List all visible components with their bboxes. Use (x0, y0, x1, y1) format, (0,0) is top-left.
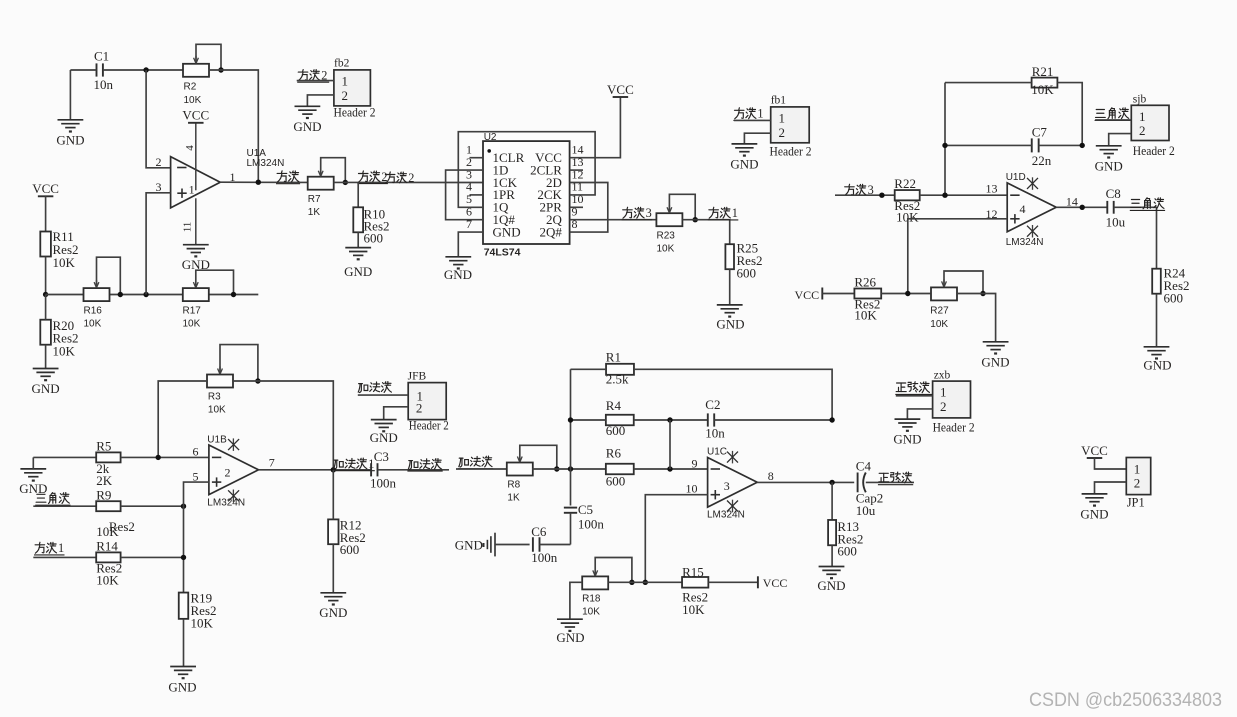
wire pin10 (645, 495, 707, 583)
svg-text:100n: 100n (531, 550, 558, 565)
svg-text:R3: R3 (208, 392, 221, 403)
wire JFB pin1 (358, 394, 408, 396)
resistor R9 (96, 501, 120, 511)
wire fb1 pin2 to ground (744, 133, 770, 144)
svg-text:1K: 1K (308, 207, 321, 218)
svg-text:10K: 10K (96, 573, 119, 588)
svg-text:C2: C2 (705, 397, 720, 412)
svg-text:C6: C6 (531, 524, 547, 539)
svg-text:3: 3 (156, 180, 162, 194)
potentiometer R18 (582, 576, 608, 589)
net label 方波1 R14 (38, 542, 41, 544)
svg-text:U1C: U1C (707, 447, 727, 458)
wire R1 row (571, 368, 607, 370)
svg-text:10K: 10K (84, 319, 102, 330)
svg-text:R9: R9 (96, 488, 111, 503)
svg-text:74LS74: 74LS74 (484, 246, 521, 258)
svg-text:GND: GND (1143, 358, 1171, 373)
net label 正弦波 C4 (879, 472, 888, 474)
node R1/R4/C5 vertical at R8 row (568, 466, 573, 471)
svg-text:Header 2: Header 2 (409, 417, 449, 432)
wire R2 wiper loop (196, 44, 221, 70)
potentiometer R2 (183, 64, 209, 77)
svg-text:R14: R14 (96, 539, 118, 554)
svg-text:2: 2 (156, 155, 162, 169)
wire R7 wiper loop (321, 158, 346, 183)
svg-text:10u: 10u (1106, 214, 1126, 229)
ground JFB (371, 419, 397, 421)
svg-text:VCC: VCC (607, 82, 634, 97)
node C2 left (667, 417, 672, 422)
wire R3 left down to pin6 (158, 381, 207, 457)
power VCC JP1 (1087, 457, 1103, 459)
svg-text:2: 2 (408, 171, 414, 185)
node R5/R3 (156, 455, 161, 460)
wire U2 1Q over-the-top to 2CK (458, 132, 595, 208)
wire R17 wiper loop (196, 270, 234, 294)
potentiometer R27 (931, 287, 957, 300)
node R8 loop (554, 466, 559, 471)
node U1A output (256, 180, 261, 185)
net label 方波3 R22 (848, 184, 851, 186)
wire U2 1D to 1Q# (446, 170, 483, 220)
svg-text:10K: 10K (1031, 82, 1054, 97)
svg-text:VCC: VCC (1081, 443, 1108, 458)
header JFB (408, 383, 446, 420)
node R9 (181, 504, 186, 509)
wire VCC to R11 (45, 196, 47, 231)
header fb2 (334, 70, 371, 106)
wire R10 to ground (357, 232, 359, 247)
wire R4 row (571, 419, 606, 421)
svg-text:R4: R4 (606, 398, 622, 413)
potentiometer R8 (507, 463, 533, 476)
node R16 loop (118, 292, 123, 297)
svg-text:GND: GND (32, 381, 60, 396)
svg-text:9: 9 (692, 456, 698, 470)
resistor R12 (328, 519, 338, 544)
node pin10 vertical (643, 580, 648, 585)
svg-text:GND: GND (817, 578, 845, 593)
resistor R24 (1152, 269, 1161, 294)
wire sjb pin1 (1095, 119, 1131, 121)
svg-text:13: 13 (986, 182, 998, 196)
node R18 loop (629, 580, 634, 585)
wire U1B output (259, 469, 372, 471)
ground U1A pin 11 (183, 244, 209, 246)
wire R3 right to output node (233, 381, 333, 470)
svg-text:3: 3 (646, 206, 652, 220)
wire JFB pin2 to ground (384, 407, 409, 420)
svg-text:GND: GND (981, 355, 1009, 370)
svg-text:10K: 10K (582, 607, 600, 618)
ground R12 (320, 592, 346, 594)
net label 加法波 after C3 (409, 460, 413, 462)
svg-text:1: 1 (1139, 109, 1146, 124)
svg-text:1: 1 (58, 541, 64, 555)
wire R16 wiper loop (97, 257, 121, 294)
wire R27 right to ground (957, 294, 996, 342)
resistor R13 (828, 520, 836, 545)
svg-text:C1: C1 (94, 49, 109, 64)
net label 加法波 R8 (459, 457, 463, 459)
node R14 (181, 555, 186, 560)
op-amp U1C hidden power pin X bottom (732, 500, 734, 513)
resistor R19 (179, 593, 189, 619)
svg-text:JFB: JFB (408, 370, 427, 382)
svg-text:GND: GND (730, 156, 758, 171)
header JP1 (1126, 458, 1150, 495)
wire U2 2D to 2Q# (570, 183, 608, 233)
svg-text:22n: 22n (1032, 153, 1052, 168)
svg-text:GND: GND (556, 630, 584, 645)
potentiometer R23 (656, 213, 682, 226)
wire C3 right (378, 469, 450, 471)
wire VCC to R26 (822, 293, 854, 295)
resistor R21 (1032, 78, 1058, 88)
svg-text:600: 600 (606, 423, 626, 438)
svg-text:VCC: VCC (32, 181, 59, 196)
wire C7 row (945, 144, 1032, 146)
svg-text:10n: 10n (94, 77, 114, 92)
svg-text:fb1: fb1 (771, 94, 787, 106)
wire C8 to R24 (1114, 207, 1157, 268)
svg-text:2.5k: 2.5k (606, 372, 629, 387)
ground C1 (58, 119, 84, 121)
svg-text:R21: R21 (1032, 64, 1054, 79)
potentiometer R16 (84, 288, 110, 301)
node R3 right (255, 378, 260, 383)
op-amp U1A VCC pin 4 (195, 123, 197, 191)
svg-text:600: 600 (837, 543, 857, 558)
svg-text:Header 2: Header 2 (334, 105, 376, 120)
wire R8 out row (532, 468, 606, 470)
wire C4 right (866, 481, 914, 483)
ground R27 (983, 341, 1009, 343)
node R26/R27/pin12 (905, 291, 910, 296)
svg-text:sjb: sjb (1133, 93, 1147, 105)
svg-text:R27: R27 (930, 306, 949, 317)
node R17 loop (231, 292, 236, 297)
resistor R22 (895, 190, 920, 200)
svg-text:1: 1 (757, 107, 763, 121)
wire R14 left (33, 556, 96, 558)
ground R18 (557, 618, 583, 620)
svg-text:2Q#: 2Q# (540, 224, 563, 239)
wire R13 to ground (831, 545, 833, 566)
wire R19 to ground (183, 619, 185, 666)
node R7 right (343, 180, 348, 185)
svg-text:100n: 100n (578, 517, 605, 532)
svg-text:600: 600 (364, 231, 384, 246)
resistor R6 (606, 464, 634, 475)
node R4 left (568, 417, 573, 422)
svg-text:GND: GND (56, 132, 84, 147)
svg-text:LM324N: LM324N (1006, 237, 1044, 248)
net label 三角波 sjb (1096, 108, 1104, 110)
wire zxb pin2 to ground (907, 409, 932, 419)
wire fb2 pin2 to ground (307, 95, 334, 106)
svg-text:600: 600 (340, 542, 360, 557)
node R22/C7 vertical (942, 193, 947, 198)
op-amp U1D hidden power pin X top (1032, 177, 1034, 190)
node C1/R2/pin2 (143, 67, 148, 72)
svg-text:C5: C5 (578, 502, 593, 517)
ground R10 (345, 247, 371, 249)
ground R24 (1144, 346, 1170, 348)
wire R22 to U1D pin13 (920, 194, 1008, 196)
power VCC U2 (613, 96, 629, 98)
node R23 right (693, 217, 698, 222)
wire R21 loop (945, 82, 1032, 84)
op-amp U1A (171, 157, 221, 208)
svg-text:GND: GND (1080, 506, 1108, 521)
ground zxb (895, 418, 921, 420)
power VCC R11 (38, 195, 54, 197)
wire R3 wiper loop (220, 345, 258, 381)
wire R9 left (33, 505, 96, 507)
svg-text:10K: 10K (930, 319, 948, 330)
svg-text:11: 11 (181, 222, 193, 233)
capacitor C1 (96, 63, 98, 76)
resistor R10 (353, 207, 363, 232)
svg-text:1K: 1K (507, 493, 520, 504)
ground R20 (33, 368, 59, 370)
ground fb1 (732, 143, 758, 145)
op-amp U1C (708, 458, 758, 508)
wire 方波3 stub (835, 194, 895, 196)
power VCC R15 (757, 576, 759, 588)
ground R13 (819, 566, 845, 568)
wire R25 to ground (729, 269, 731, 305)
potentiometer R17 (183, 288, 209, 301)
op-amp U1C hidden power pin X top (732, 451, 734, 464)
wire pin5 vertical (184, 482, 209, 592)
wire bias bus (46, 294, 259, 296)
svg-text:GND: GND (1095, 158, 1123, 173)
wire R8 wiper loop (520, 445, 557, 469)
svg-text:R6: R6 (606, 446, 622, 461)
svg-text:R2: R2 (184, 82, 197, 93)
svg-text:2: 2 (416, 400, 423, 415)
svg-text:2: 2 (940, 399, 947, 414)
wire output to R12 (332, 470, 334, 520)
wire R20 to ground (45, 345, 47, 369)
svg-text:R15: R15 (682, 565, 704, 580)
wire R27 wiper loop (944, 271, 983, 294)
ground R5 (20, 468, 46, 470)
wire R5 to U1B pin6 (121, 456, 209, 458)
svg-text:C3: C3 (374, 449, 389, 464)
wire R14 right (121, 556, 184, 558)
node R11/R20 bus (43, 292, 48, 297)
wire R9 right (121, 505, 184, 507)
svg-text:zxb: zxb (934, 369, 951, 381)
node U1B output (331, 467, 336, 472)
node U1C output (829, 480, 834, 485)
capacitor C4 (857, 473, 859, 493)
wire R8 left (456, 468, 507, 470)
svg-text:C8: C8 (1106, 186, 1121, 201)
svg-text:2K: 2K (96, 473, 113, 488)
resistor R14 (96, 552, 120, 562)
wire C7 left vertical (944, 83, 946, 196)
svg-text:GND: GND (370, 430, 398, 445)
wire R18 right to R15 (608, 581, 682, 583)
wire R23 to R25 (682, 220, 729, 245)
wire C5 bottom (570, 513, 572, 545)
svg-text:VCC: VCC (763, 576, 788, 590)
ground JP1 (1082, 493, 1108, 495)
net label 方波 (281, 171, 284, 173)
net label 方波1 fb1 (738, 108, 741, 110)
ground fb2 (295, 105, 321, 107)
wire pin2 vertical (146, 70, 171, 168)
svg-text:4: 4 (184, 145, 196, 151)
svg-text:10K: 10K (682, 602, 705, 617)
wire C2 branch vertical (669, 420, 671, 469)
svg-text:C7: C7 (1032, 125, 1048, 140)
svg-text:7: 7 (269, 456, 275, 470)
svg-text:10n: 10n (705, 426, 725, 441)
svg-text:600: 600 (606, 474, 626, 489)
svg-text:VCC: VCC (795, 288, 820, 302)
svg-text:1: 1 (342, 74, 349, 89)
potentiometer R3 (207, 375, 233, 388)
node R27 right (980, 291, 985, 296)
svg-text:4: 4 (1020, 202, 1026, 216)
capacitor C7 (1031, 138, 1033, 152)
header sjb (1131, 105, 1169, 140)
resistor R15 (682, 577, 708, 588)
IC U2 74LS74 (483, 141, 570, 244)
svg-text:GND: GND (344, 264, 372, 279)
wire R12 to ground (332, 544, 334, 592)
wire R5 left (33, 456, 96, 458)
svg-text:R16: R16 (84, 306, 103, 317)
node pin3 vertical (143, 292, 148, 297)
wire R15 to VCC (708, 581, 758, 583)
svg-text:Header 2: Header 2 (933, 419, 975, 434)
wire R26 to R27 (881, 293, 930, 295)
wire R23 wiper loop (669, 194, 695, 219)
capacitor C5 (564, 507, 577, 509)
wire C6 left (495, 544, 530, 546)
capacitor C2 (707, 413, 709, 426)
svg-text:600: 600 (1164, 291, 1184, 306)
ground R19 (170, 666, 196, 668)
ground U2 (445, 256, 471, 258)
svg-text:2: 2 (779, 125, 786, 140)
net label 方波2 b (389, 172, 392, 174)
resistor R26 (854, 289, 881, 299)
svg-text:1: 1 (779, 111, 786, 126)
svg-text:10: 10 (686, 482, 698, 496)
node R2 right (218, 67, 223, 72)
svg-text:1: 1 (1134, 462, 1141, 477)
svg-text:GND: GND (319, 605, 347, 620)
resistor R20 (40, 320, 51, 345)
svg-text:CSDN @cb2506334803: CSDN @cb2506334803 (1029, 689, 1222, 711)
capacitor C3 (370, 463, 372, 476)
wire JP1 pin1 (1095, 458, 1127, 469)
svg-text:10u: 10u (856, 503, 876, 518)
svg-text:GND: GND (455, 538, 483, 553)
wire R11 to bus (45, 257, 47, 295)
wire R6 to pin9 (634, 468, 708, 470)
net label 正弦波 zxb (897, 382, 906, 384)
svg-text:U2: U2 (484, 132, 497, 143)
wire output to R13 (831, 482, 833, 520)
header fb1 (771, 107, 810, 143)
wire left feedback vertical (570, 369, 572, 505)
net label 三角波 C8 (1131, 198, 1139, 200)
capacitor C6 (532, 537, 534, 552)
wire C6 right (540, 544, 571, 546)
wire U2 2Q output pin9 (570, 219, 656, 221)
svg-text:LM324N: LM324N (707, 510, 745, 521)
wire fb1 pin1 (734, 119, 771, 121)
svg-text:GND: GND (716, 317, 744, 332)
svg-text:JP1: JP1 (1127, 496, 1145, 510)
wire U2 VCC pin14 (570, 97, 621, 158)
op-amp U1A GND pin 11 (195, 198, 197, 244)
node pin9/C2 (667, 466, 672, 471)
wire U1A output (220, 181, 308, 183)
svg-text:10K: 10K (208, 405, 226, 416)
svg-text:GND: GND (168, 680, 196, 695)
svg-text:GND: GND (293, 119, 321, 134)
svg-text:600: 600 (737, 266, 757, 281)
svg-text:3: 3 (724, 479, 730, 493)
svg-text:GND: GND (893, 432, 921, 447)
svg-text:VCC: VCC (182, 108, 209, 123)
svg-text:Header 2: Header 2 (770, 144, 812, 159)
wire U1D output (1056, 206, 1107, 208)
node C2 right (829, 417, 834, 422)
net label 方波2 fb2 (302, 70, 305, 72)
net label 方波3 pin9 (626, 207, 629, 209)
svg-text:100n: 100n (370, 476, 397, 491)
svg-text:8: 8 (768, 469, 774, 483)
resistor R4 (606, 415, 634, 426)
svg-text:2: 2 (225, 466, 231, 480)
node 方波3 (879, 193, 884, 198)
svg-text:R18: R18 (582, 594, 601, 605)
resistor R5 (96, 452, 120, 462)
svg-text:1: 1 (189, 183, 195, 197)
svg-text:fb2: fb2 (334, 57, 350, 69)
svg-text:10K: 10K (183, 319, 201, 330)
potentiometer R7 (308, 177, 334, 190)
wire U2 GND pin7 (458, 232, 483, 257)
wire bus to R20 (45, 295, 47, 320)
svg-text:6: 6 (193, 445, 199, 459)
resistor R25 (725, 244, 734, 269)
wire R18 wiper loop (595, 558, 632, 583)
wire C2 right (714, 419, 832, 421)
wire U1D pin12 to R26/R27 (908, 219, 1007, 294)
svg-text:GND: GND (493, 224, 521, 239)
svg-text:Header 2: Header 2 (1133, 143, 1175, 158)
svg-text:10K: 10K (96, 524, 119, 539)
header zxb (933, 381, 971, 418)
resistor R11 (40, 232, 51, 257)
op-amp U1B hidden power pin X bottom (232, 490, 234, 503)
svg-text:R23: R23 (657, 231, 676, 242)
svg-text:2: 2 (342, 88, 349, 103)
svg-text:10K: 10K (854, 307, 877, 322)
